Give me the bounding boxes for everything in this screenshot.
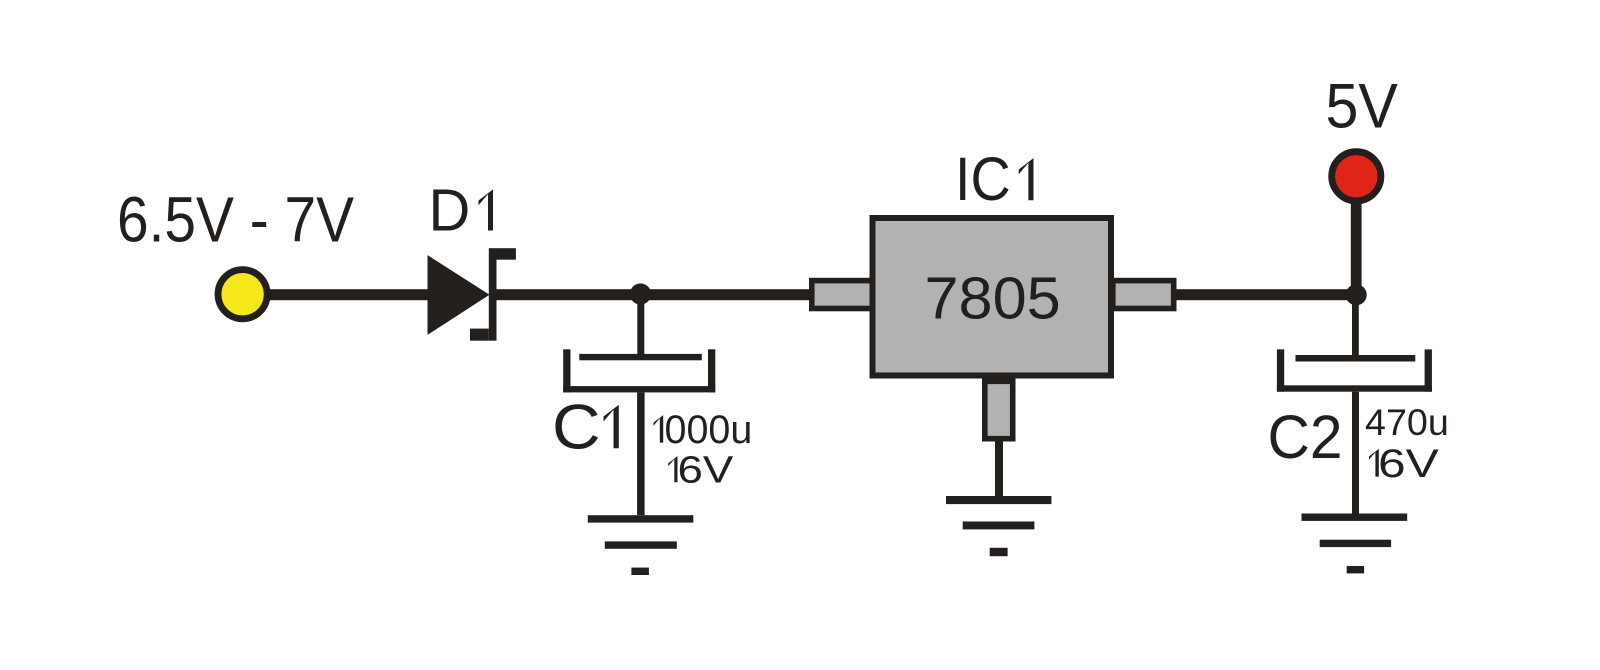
regulator IC1 body [873, 218, 1112, 376]
svg-text:5V: 5V [1326, 72, 1399, 142]
svg-text:7805: 7805 [925, 265, 1061, 332]
wire: IC1 output pin to output node [1173, 289, 1356, 300]
regulator IC1 pin 1 (input, left) [812, 281, 873, 309]
svg-text:470u: 470u [1365, 402, 1449, 443]
capacitor C2 [1277, 349, 1432, 391]
regulator IC1 pin 3 (output, right) [1113, 281, 1174, 309]
diode D1 (schottky) [428, 248, 516, 341]
svg-text:D: D [429, 178, 471, 244]
svg-text:6V: 6V [1378, 442, 1439, 486]
svg-text:C2: C2 [1268, 403, 1343, 471]
input terminal (yellow) [218, 270, 267, 319]
wire: junction down to C1 positive plate [637, 294, 644, 355]
value label 1000u [654, 415, 664, 443]
wire: C2 negative plate to ground [1352, 392, 1359, 514]
svg-text:000u: 000u [665, 408, 753, 452]
output terminal (red) [1332, 152, 1381, 201]
regulator IC1 pin 2 (ground, bottom) [985, 381, 1013, 438]
wire: input terminal to D1 anode [264, 289, 430, 300]
svg-text:C: C [552, 393, 601, 463]
wire: IC1 ground pin to ground [995, 442, 1003, 497]
svg-text:6.5V - 7V: 6.5V - 7V [117, 184, 354, 256]
node junction at C1 [630, 283, 651, 304]
ground (C2) [1302, 514, 1408, 574]
value label 16V (C2) [1369, 449, 1379, 477]
ground (IC1) [946, 496, 1051, 556]
wire: C1 negative plate to ground [637, 392, 645, 515]
svg-text:IC: IC [955, 145, 1011, 214]
wire: junction down to C2 positive plate [1352, 295, 1359, 355]
ground (C1) [588, 515, 694, 575]
wire: D1 cathode to IC1 input pin [497, 289, 810, 300]
wire: output terminal down to output node [1351, 198, 1362, 295]
capacitor C1 [563, 349, 715, 392]
svg-text:6V: 6V [678, 450, 735, 492]
node junction at C2 [1346, 284, 1367, 305]
value label 16V (C1) [668, 456, 677, 482]
